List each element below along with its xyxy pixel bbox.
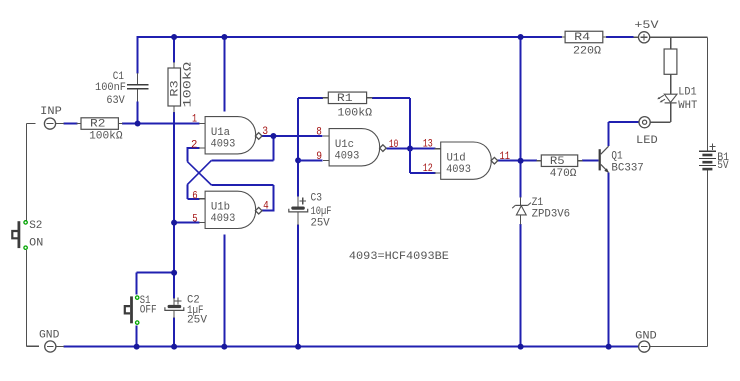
svg-text:ON: ON <box>29 238 43 250</box>
wire INP to S2 left branch <box>27 124 39 347</box>
wire C2 pin stubs <box>173 298 175 318</box>
node rail/R3 junction <box>171 34 177 40</box>
wire lamp branch from +5V <box>670 37 672 49</box>
capacitor C3 <box>289 193 332 230</box>
wire U1b GND pin to rail <box>223 235 225 347</box>
svg-text:100kΩ: 100kΩ <box>183 61 195 107</box>
wire Q1 collector to LED terminal <box>609 122 639 146</box>
pin 11 U1d <box>500 151 511 163</box>
resistor R1 <box>328 92 372 120</box>
svg-text:Z1: Z1 <box>532 197 544 209</box>
svg-text:R5: R5 <box>550 156 565 168</box>
wire U1a output to U1c pin8 <box>273 135 322 137</box>
wire S1 branch horizontal <box>137 273 175 295</box>
svg-text:63V: 63V <box>106 95 125 107</box>
svg-text:LED: LED <box>636 135 658 147</box>
terminal +5V <box>634 20 659 43</box>
pin 6 U1b <box>192 190 197 202</box>
wire C3 pin stubs <box>297 196 299 225</box>
node rail/U1a-VDD junction <box>221 34 227 40</box>
wire battery branch vertical <box>650 37 707 346</box>
svg-text:2: 2 <box>191 140 197 152</box>
svg-text:13: 13 <box>423 139 433 151</box>
svg-text:4: 4 <box>263 200 269 212</box>
svg-text:25V: 25V <box>311 218 331 230</box>
wire U1c pin9 stub <box>298 159 322 161</box>
svg-text:470Ω: 470Ω <box>550 168 577 180</box>
svg-text:R3: R3 <box>170 80 182 97</box>
op-amp U1d NAND gate 4093 <box>435 142 498 179</box>
wire U1d pin12 loop <box>410 149 436 173</box>
wire Z1 pin stubs <box>520 197 522 225</box>
pin 4 U1b <box>263 200 269 212</box>
transistor Q1 BC337 <box>599 146 644 175</box>
svg-text:4093=HCF4093BE: 4093=HCF4093BE <box>349 251 449 263</box>
svg-text:4093: 4093 <box>211 213 236 225</box>
svg-text:WHT: WHT <box>678 100 697 112</box>
wire lamp resistor to LD1 <box>670 74 672 94</box>
svg-text:6: 6 <box>192 190 197 202</box>
wire R3 pin stubs <box>173 62 175 112</box>
node R3-net/S1 junction <box>171 270 177 276</box>
pin 12 U1d <box>423 163 433 175</box>
wire R1 pin stubs <box>323 97 373 99</box>
node R3/U1b-pin5 junction <box>171 220 177 226</box>
resistor R2 <box>81 118 123 143</box>
svg-text:5: 5 <box>192 213 197 225</box>
resistor lamp series <box>664 49 677 74</box>
resistor R3 <box>168 61 195 107</box>
resistor R4 <box>565 31 603 57</box>
svg-text:100nF: 100nF <box>95 82 126 94</box>
wire INP terminal pin stub <box>56 123 64 125</box>
svg-text:4093: 4093 <box>211 138 236 150</box>
node U1d-output/Z1 junction <box>518 158 524 164</box>
wire R2 pin stubs <box>77 123 123 125</box>
svg-text:4093: 4093 <box>446 164 471 176</box>
svg-text:3: 3 <box>262 126 268 138</box>
pin 9 U1c <box>316 151 322 163</box>
svg-text:1: 1 <box>192 113 197 125</box>
svg-text:BC337: BC337 <box>611 163 643 175</box>
wire Z1 branch vertical <box>520 37 522 347</box>
svg-text:8: 8 <box>316 126 322 138</box>
note 4093=HCF4093BE <box>349 251 449 263</box>
wire R3 branch vertical <box>173 37 175 347</box>
wire C1 pin stubs <box>137 73 139 102</box>
svg-text:4093: 4093 <box>335 150 360 162</box>
svg-text:9: 9 <box>316 151 322 163</box>
wire C1 branch vertical <box>137 37 139 124</box>
svg-text:10µF: 10µF <box>311 206 332 218</box>
svg-text:GND: GND <box>39 330 60 342</box>
svg-text:100kΩ: 100kΩ <box>89 131 123 143</box>
svg-text:R4: R4 <box>574 32 590 44</box>
svg-text:C3: C3 <box>311 193 323 205</box>
node R1-net/U1c-pin9 junction <box>295 157 301 163</box>
wire U1b pin5 from R3 net <box>174 222 199 224</box>
diode Z1 zener ZPD3V6 <box>512 197 570 221</box>
wire INP net horizontal <box>64 123 200 125</box>
wire GND-left terminal pin stub <box>56 346 64 348</box>
switch S1 OFF pushbutton <box>125 295 157 324</box>
node rail/S1 junction <box>134 344 140 350</box>
node rail/C2 junction <box>171 344 177 350</box>
svg-text:OFF: OFF <box>140 305 157 317</box>
node INP/R2/C1 junction <box>135 121 141 127</box>
svg-text:11: 11 <box>500 151 511 163</box>
terminal INP <box>40 106 62 129</box>
svg-text:+5V: +5V <box>634 20 659 32</box>
wire +5V terminal pin stub <box>634 36 639 38</box>
svg-text:U1c: U1c <box>335 139 354 151</box>
op-amp U1a NAND gate 4093 <box>199 117 262 154</box>
node rail/Z1 bottom junction <box>518 344 524 350</box>
wire R1 feedback left vertical <box>298 98 323 197</box>
wire U1a output to U1b pin6 cross-couple <box>187 136 273 199</box>
pin 8 U1c <box>316 126 322 138</box>
svg-text:12: 12 <box>423 163 433 175</box>
op-amp U1c NAND gate 4093 <box>323 129 386 166</box>
wire U1d output row to R5 and Q1 base <box>498 160 599 162</box>
capacitor C2 <box>165 295 207 327</box>
wire R5 pin stubs <box>537 160 583 162</box>
svg-text:U1a: U1a <box>211 127 231 139</box>
pin 3 U1a <box>262 126 268 138</box>
wire R1 right to U1c output <box>372 98 436 149</box>
pin 10 U1c <box>389 139 399 151</box>
node U1c-output/U1d-pin13 junction <box>407 146 413 152</box>
svg-text:220Ω: 220Ω <box>573 46 601 58</box>
wire LD1 cathode to LED terminal <box>650 103 671 122</box>
pin 1 U1a <box>192 113 197 125</box>
node U1a output junction <box>270 133 276 139</box>
wire S1 to ground rail <box>136 326 138 347</box>
wire C3 to ground rail <box>297 225 299 347</box>
wire VCC top rail <box>137 36 634 38</box>
switch S2 ON pushbutton <box>12 220 43 250</box>
svg-text:INP: INP <box>40 106 62 118</box>
op-amp U1b NAND gate 4093 <box>199 191 262 228</box>
node rail/U1b-GND junction <box>221 344 227 350</box>
svg-text:U1d: U1d <box>447 152 466 164</box>
svg-text:LD1: LD1 <box>678 87 697 99</box>
wire Q1 emitter to ground rail <box>608 173 610 347</box>
terminal GND left <box>39 330 60 353</box>
terminal GND right <box>635 330 657 352</box>
svg-text:10: 10 <box>389 139 399 151</box>
svg-text:R1: R1 <box>337 93 353 105</box>
svg-text:100kΩ: 100kΩ <box>337 108 372 120</box>
wire +5V terminal to battery top <box>650 36 708 38</box>
terminal LED <box>636 117 658 147</box>
resistor R5 <box>541 155 577 180</box>
wire U1a VDD pin stub from rail <box>223 37 225 112</box>
svg-text:5V: 5V <box>717 160 729 172</box>
svg-text:S2: S2 <box>29 220 42 232</box>
svg-text:GND: GND <box>635 330 657 342</box>
node rail/Z1 junction <box>518 34 524 40</box>
pin 2 U1a <box>191 140 197 152</box>
svg-text:ZPD3V6: ZPD3V6 <box>532 209 571 221</box>
node rail/Q1-emitter junction <box>606 344 612 350</box>
node rail/C3 junction <box>295 344 301 350</box>
capacitor C1 <box>95 71 149 107</box>
wire GND bottom rail <box>64 346 638 348</box>
svg-text:Q1: Q1 <box>611 150 623 162</box>
battery B1 5V <box>699 143 730 172</box>
svg-text:R2: R2 <box>90 119 105 131</box>
pin 13 U1d <box>423 139 433 151</box>
svg-text:U1b: U1b <box>211 202 230 214</box>
LED LD1 WHT <box>657 87 698 112</box>
svg-text:25V: 25V <box>187 315 207 327</box>
wire U1a pin2 cross-couple to U1b output <box>187 147 274 211</box>
wire R4 pin stubs <box>562 36 607 38</box>
pin 5 U1b <box>192 213 197 225</box>
